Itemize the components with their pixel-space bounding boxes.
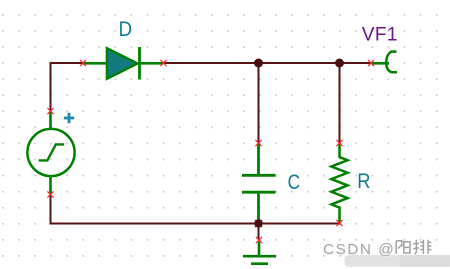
- resistor R top lead and zigzag: [331, 144, 347, 223]
- diode D cathode lead: [140, 62, 163, 65]
- diode D cathode bar: [138, 47, 141, 80]
- wire ground stub: [258, 224, 260, 240]
- pin x-mark diode cathode: [161, 60, 167, 66]
- source VG1 waveform: [39, 144, 64, 160]
- capacitor C bottom plate: [242, 191, 276, 194]
- watermark glyph yang: [396, 241, 410, 254]
- svg-text:CSDN @: CSDN @: [323, 241, 395, 258]
- wire capacitor branch vertical: [258, 63, 260, 143]
- source plus sign: [64, 113, 74, 123]
- VF1 probe hook: [386, 52, 397, 73]
- source VG1 top pin: [49, 112, 52, 130]
- ground stem: [258, 242, 261, 257]
- svg-text:D: D: [119, 18, 132, 42]
- svg-text:C: C: [288, 170, 300, 194]
- VF1 probe pin: [372, 62, 389, 65]
- capacitor C top lead: [257, 144, 260, 175]
- pin x-mark ground: [256, 237, 262, 243]
- diode D body: [107, 48, 138, 79]
- wire bottom from source to resistor: [51, 195, 341, 224]
- pin x-mark source top: [48, 108, 54, 114]
- capacitor C top plate: [242, 174, 276, 177]
- source VG1 bottom pin: [49, 176, 52, 194]
- watermark glyph pai: [413, 240, 431, 254]
- capacitor C bottom lead: [257, 192, 260, 223]
- pin x-mark capacitor bottom: [255, 220, 261, 226]
- ground bar 1: [243, 255, 276, 258]
- wire resistor branch vertical: [339, 63, 341, 143]
- ground bar 2: [251, 262, 268, 265]
- pin x-mark resistor top: [337, 140, 343, 146]
- pin x-mark source bottom: [48, 192, 54, 198]
- pin x-mark probe: [368, 60, 374, 66]
- watermark band: [345, 255, 450, 267]
- pin x-mark capacitor top: [256, 140, 262, 146]
- pin x-mark diode anode: [80, 60, 86, 66]
- pin x-mark resistor bottom: [337, 220, 343, 226]
- svg-text:R: R: [357, 169, 370, 193]
- junction dot node 3: [254, 219, 262, 227]
- wire top from diode cathode to VF1 probe: [163, 62, 371, 64]
- svg-text:VF1: VF1: [362, 25, 398, 46]
- diode D anode lead: [83, 62, 107, 65]
- junction dot node 1: [254, 59, 263, 68]
- junction dot node 2: [335, 59, 344, 68]
- wire top-left vertical from corner A to source top pin: [51, 63, 84, 111]
- source VG1 circle: [27, 129, 74, 176]
